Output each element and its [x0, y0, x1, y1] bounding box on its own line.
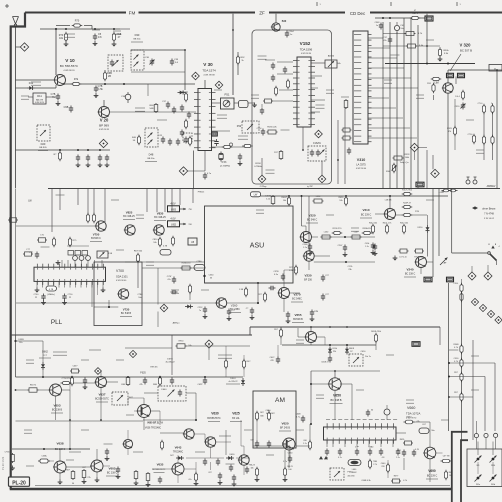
dark box V30 right [212, 132, 218, 136]
resistor R6L23 [249, 465, 259, 483]
capacitor Cb1 [83, 378, 88, 390]
capacitor C23A [269, 286, 276, 290]
junction D9FB [14, 339, 24, 344]
svg-text:4.7k: 4.7k [454, 361, 458, 363]
label V690 [426, 469, 438, 479]
transistor V6c [122, 439, 132, 448]
resistor R23k [289, 265, 297, 276]
svg-text:10k: 10k [339, 200, 342, 202]
crystal 4MHz [46, 286, 57, 296]
wire preamp mid [28, 96, 56, 98]
wire zf verticals [338, 108, 345, 184]
pot F660 [330, 468, 355, 480]
label D67B [165, 359, 175, 364]
label V660 [406, 406, 420, 420]
svg-text:CD Dec: CD Dec [350, 11, 366, 16]
label V637 [95, 393, 109, 403]
IC V310 connector [353, 31, 372, 144]
wire x226 v [226, 430, 231, 455]
resistor R623 [255, 411, 263, 422]
svg-text:L2B 6B: L2B 6B [385, 200, 392, 202]
box U8x [188, 238, 197, 245]
transistor V620 jfet [282, 438, 295, 450]
diamond below V30 [179, 167, 187, 175]
dashed varicap D30 [131, 50, 144, 70]
ground R70b [64, 42, 69, 47]
svg-text:F635: F635 [140, 372, 146, 375]
svg-text:C66B 4.3k: C66B 4.3k [361, 480, 370, 482]
label V270 [291, 293, 303, 303]
resistor R230 [332, 228, 343, 235]
capacitor C660b [253, 446, 293, 463]
transistor V320 [442, 83, 453, 93]
svg-text:3 W 14 02: 3 W 14 02 [484, 218, 495, 220]
rail y420 [16, 420, 144, 422]
capacitor C24x [171, 290, 178, 294]
svg-text:TDA 1072A: TDA 1072A [406, 412, 420, 416]
resistor R26A [181, 262, 192, 271]
svg-text:BC 558-557C: BC 558-557C [60, 64, 79, 68]
oval bottom1 [194, 472, 199, 486]
wire v270 [284, 270, 300, 312]
resistor R0L4 [383, 223, 392, 235]
wire x433 [432, 189, 434, 278]
svg-text:R26A 150: R26A 150 [182, 262, 192, 265]
svg-text:A6550: A6550 [328, 55, 335, 58]
switch S1 [488, 244, 501, 261]
label V230 [304, 274, 312, 282]
svg-text:V636 TRC548C: V636 TRC548C [145, 428, 162, 430]
dark box LB1 [416, 182, 424, 187]
svg-text:4 W5 98 35: 4 W5 98 35 [99, 129, 110, 131]
capacitor C37r [383, 37, 392, 44]
outer right frame [452, 432, 468, 502]
svg-text:PL 20 1723: PL 20 1723 [1, 456, 5, 470]
capacitor C252 [198, 307, 208, 320]
label V630 [207, 412, 221, 422]
svg-text:V643: V643 [175, 446, 182, 450]
V660 pin labels [326, 419, 397, 421]
side margin text [1, 456, 5, 470]
ZF block outline [252, 30, 332, 184]
IC V152 TDA1596 [293, 57, 315, 127]
inner right frame [461, 440, 468, 502]
resistor R6Pk [400, 439, 413, 445]
connector circle 2 [484, 433, 488, 449]
svg-text:F162%: F162% [313, 142, 321, 145]
wire v660 below [327, 440, 393, 447]
label V210 [360, 208, 372, 218]
svg-text:C658 47: C658 47 [321, 362, 329, 364]
svg-text:V655: V655 [294, 313, 301, 317]
capacitor C209 [373, 244, 378, 257]
label L2B [385, 200, 392, 202]
resistor R6L25 [283, 466, 293, 482]
capacitor C153 [98, 155, 103, 168]
rail y63 [385, 63, 475, 65]
capacitor C267 [227, 309, 236, 322]
svg-text:C9B: C9B [64, 106, 69, 109]
separator lower-right [250, 327, 440, 335]
svg-text:V625: V625 [232, 412, 240, 416]
wire lower misc [403, 458, 405, 470]
svg-text:4.7B: 4.7B [49, 289, 54, 291]
svg-text:V310: V310 [357, 158, 365, 162]
capacitor C154a [105, 155, 110, 168]
label V653 [51, 404, 63, 414]
boxes above V700 [67, 246, 89, 255]
capacitor C661 [325, 449, 329, 460]
svg-text:R53A 150: R53A 150 [363, 227, 373, 230]
svg-text:1.5k: 1.5k [98, 88, 103, 91]
wire V30 top [204, 80, 206, 89]
svg-text:C7B0: C7B0 [137, 294, 143, 296]
label V320 [460, 43, 473, 53]
texture lowmid [266, 340, 394, 455]
svg-text:FM: FM [129, 11, 136, 16]
label LW2 [28, 200, 32, 203]
transistor V220 [300, 232, 312, 243]
resistor R25x [188, 284, 191, 300]
oval C96u [419, 424, 435, 434]
wire v700 bottom stubs [37, 281, 103, 287]
transistor V210 [384, 209, 396, 220]
svg-text:TDA 1574: TDA 1574 [202, 69, 216, 73]
svg-text:1.2n: 1.2n [365, 246, 369, 248]
resistor R328 [393, 154, 411, 160]
label FM [129, 11, 136, 16]
wire V320 wires [434, 70, 457, 189]
svg-text:V637: V637 [98, 393, 105, 397]
svg-text:172: 172 [397, 453, 400, 455]
wire y360 partial [186, 346, 250, 360]
arrow AM AF [440, 258, 448, 266]
dark cap C663 [319, 456, 328, 459]
svg-text:R158: R158 [255, 163, 261, 165]
svg-text:R6L23: R6L23 [249, 465, 255, 467]
diamond chain 2 [479, 304, 486, 311]
svg-text:C6B: C6B [121, 384, 126, 386]
resistor 3.3M [431, 77, 442, 84]
resistor R5B [112, 32, 122, 47]
resistor R52 [236, 52, 245, 75]
pot board box [467, 449, 502, 487]
fbead 47B [160, 246, 171, 256]
svg-text:R6L25: R6L25 [287, 466, 293, 468]
capacitor C604 [270, 345, 281, 364]
wire osc rail [131, 50, 185, 90]
svg-text:BC 328-25: BC 328-25 [123, 215, 135, 218]
P51 tuning block [221, 93, 249, 110]
svg-text:47n: 47n [98, 36, 103, 39]
label V310 [356, 158, 367, 170]
diamond ZF3 [318, 175, 326, 183]
oval G662 [348, 460, 361, 475]
capacitor C53 [238, 154, 243, 167]
svg-text:7 N 4748: 7 N 4748 [484, 213, 494, 216]
capacitor C38b [121, 92, 131, 103]
transistor V638 [53, 461, 66, 473]
svg-text:BC 548C: BC 548C [292, 298, 302, 301]
transistor V230 [303, 251, 314, 261]
svg-text:V690: V690 [428, 469, 436, 473]
resistor R624 [267, 411, 274, 422]
node rail y29 [40, 28, 120, 30]
ground v605b [95, 472, 100, 483]
capacitor C665 [368, 446, 374, 456]
svg-text:4.7k: 4.7k [266, 413, 270, 415]
resistor R160 [274, 150, 283, 160]
label PLL [51, 319, 63, 326]
diode D631 [170, 455, 184, 460]
svg-text:R6?7: R6?7 [394, 476, 399, 478]
svg-text:(4MHz): (4MHz) [47, 294, 54, 296]
transistor V270 [278, 288, 290, 299]
wire y458 [186, 457, 250, 459]
crystal osc circle [384, 405, 390, 420]
svg-text:R0L7 10k: R0L7 10k [400, 223, 408, 225]
resistor R6B [368, 459, 377, 470]
diode D26 [185, 305, 193, 309]
transistor V600 [137, 405, 151, 418]
antenna feed wire [15, 27, 17, 189]
wire x439 [438, 189, 440, 257]
label ZF [259, 11, 265, 16]
junction dots misc [15, 28, 498, 421]
left border [11, 13, 25, 490]
svg-text:V600 BF 2L7 A: V600 BF 2L7 A [147, 422, 163, 425]
svg-text:tg 29P: tg 29P [307, 185, 313, 188]
resistor C6040 [82, 467, 90, 479]
svg-text:4 W3 98 30: 4 W3 98 30 [301, 53, 312, 55]
capacitor C09k [365, 243, 376, 256]
wire v638 row [12, 448, 90, 450]
resistor R0L2 [369, 223, 377, 235]
pot A6550 [311, 55, 342, 69]
svg-text:2.2k: 2.2k [289, 270, 293, 272]
svg-text:D12: D12 [29, 82, 34, 85]
svg-text:R24P 47: R24P 47 [403, 203, 412, 205]
cap extra b4 [232, 475, 237, 487]
svg-text:V220: V220 [308, 214, 315, 218]
transistor V750 [95, 221, 106, 231]
svg-text:1.2n: 1.2n [303, 247, 307, 249]
capacitor Cb2 [139, 378, 147, 387]
wire asu bottom ext [205, 282, 260, 284]
resistor R67x [134, 251, 143, 289]
wire v700 top stubs [62, 260, 102, 267]
svg-text:BF 256: BF 256 [304, 279, 312, 282]
capacitor C664 [355, 447, 360, 456]
pot R32B [386, 163, 397, 174]
ASU block [205, 206, 294, 283]
wire cluster [128, 411, 244, 483]
texture busarea [384, 40, 484, 153]
label B40 [282, 20, 287, 23]
diamond mid3 [205, 340, 213, 360]
svg-text:ZF: ZF [259, 11, 265, 16]
svg-text:2.7k: 2.7k [373, 464, 377, 466]
ground P51 [252, 103, 257, 108]
svg-text:R6K8: R6K8 [349, 348, 355, 350]
transistor V655 [305, 332, 317, 343]
label PH Det [198, 191, 205, 194]
wire V10 collector [55, 29, 57, 75]
svg-text:R4071: R4071 [282, 197, 289, 199]
capacitor C44 [168, 139, 172, 146]
cap extra b2 [116, 467, 121, 480]
capacitor C7W [167, 276, 176, 284]
wire sep drops [52, 189, 193, 233]
oval R756 [52, 237, 55, 248]
label V600 [145, 422, 163, 430]
label V30 [202, 62, 216, 77]
transistor V6a [183, 429, 194, 439]
texture v30 area [214, 90, 259, 139]
capacitor C5 [93, 33, 103, 46]
dark diode v30 [178, 91, 186, 95]
tcircle 2 [473, 177, 477, 184]
capacitor C36a [172, 107, 176, 114]
wire extra y469 [196, 462, 211, 474]
svg-text:V260: V260 [231, 304, 238, 308]
label zf note [260, 185, 314, 188]
texture lower [24, 360, 134, 466]
dark box LB2 [424, 277, 432, 282]
svg-text:4.5B: 4.5B [108, 253, 113, 255]
svg-text:E95 65: E95 65 [151, 367, 159, 369]
wire x43 [16, 341, 44, 377]
svg-text:4.7u: 4.7u [338, 457, 342, 459]
wire x172 drop [125, 335, 172, 375]
ASU right pin [273, 271, 285, 281]
IC V30 TDA1574 [194, 89, 216, 151]
svg-text:P51: P51 [225, 93, 230, 97]
svg-text:4.3u: 4.3u [274, 274, 278, 276]
resistor R24P [402, 203, 413, 209]
wire row262 [125, 262, 205, 268]
svg-text:V210: V210 [362, 208, 369, 212]
svg-text:AM/Qu: AM/Qu [173, 322, 181, 325]
svg-text:27M: 27M [415, 211, 419, 213]
svg-text:R658 470k: R658 470k [371, 331, 381, 333]
svg-text:V825: V825 [126, 211, 133, 215]
label V240 [404, 268, 416, 278]
coil L701 [73, 256, 78, 261]
rail y150 [35, 149, 110, 151]
ground v700 p1 [35, 288, 40, 293]
svg-text:4 W2 98 40: 4 W2 98 40 [356, 168, 367, 170]
ground mid [393, 256, 398, 261]
resistor R301 [410, 10, 421, 20]
dashed box small [183, 133, 192, 142]
resistor R5A [414, 249, 424, 259]
svg-text:47k: 47k [448, 131, 451, 133]
filter F162 [308, 142, 326, 161]
svg-text:D48: D48 [149, 153, 154, 157]
diamond R2 [484, 265, 492, 280]
resistor R347a [482, 135, 485, 146]
V310 left parts [341, 97, 352, 155]
capacitor Cb4 [197, 378, 207, 387]
test point diamond [20, 43, 28, 51]
wire f640 [144, 393, 196, 420]
texture zf area [258, 56, 335, 173]
vertical feed x233 [232, 14, 234, 95]
diamond ZF1 [315, 130, 323, 138]
wire v152 l1 [262, 62, 293, 107]
svg-text:910k: 910k [386, 171, 390, 173]
capacitor C9B [64, 106, 74, 113]
svg-text:96u: 96u [431, 430, 434, 432]
transistor V650 [328, 378, 341, 390]
wire v620 [257, 419, 289, 468]
resistor C1xx [399, 249, 409, 259]
svg-text:V152: V152 [300, 41, 311, 46]
wire bus bundle verticals [383, 18, 418, 189]
capacitor C152 [86, 155, 91, 168]
capacitor C164 [285, 31, 295, 38]
svg-text:C09k: C09k [365, 243, 369, 245]
label V20 [99, 118, 110, 132]
wire V10 emitter out [64, 83, 195, 85]
svg-text:C?34 174: C?34 174 [62, 378, 72, 380]
dark box GB2 [458, 73, 465, 77]
svg-text:BC 548 B: BC 548 B [121, 312, 132, 315]
svg-text:V620: V620 [281, 422, 288, 426]
resistor R40 [132, 135, 141, 146]
transistor V635 [171, 463, 184, 475]
label AB [438, 191, 444, 194]
svg-text:C6?: C6? [250, 440, 253, 442]
svg-text:BC548 C: BC548 C [91, 237, 101, 240]
svg-text:1.3B: 1.3B [239, 289, 244, 291]
diode D655b [345, 347, 355, 355]
label C66B [361, 480, 370, 482]
reg out U83 [168, 202, 193, 212]
transistor V20 [98, 100, 110, 118]
texture top area [21, 30, 167, 120]
diode D662 [41, 362, 45, 370]
svg-text:R6Pk: R6Pk [400, 439, 405, 441]
svg-text:BB 30x: BB 30x [147, 158, 155, 160]
capacitor C43 [158, 135, 165, 144]
capacitor C2653 [246, 308, 255, 321]
oval Rb3 [153, 376, 162, 387]
wire P51 [212, 102, 256, 104]
diamond mid1 [410, 143, 418, 151]
diode D350 [418, 225, 430, 233]
resistor R430 [339, 196, 348, 207]
capacitor C666 [379, 449, 385, 460]
label V700 [116, 269, 128, 282]
wire V30 bottom [188, 151, 205, 189]
svg-text:45-335-22: 45-335-22 [165, 362, 175, 364]
label V650 [330, 394, 343, 404]
capacitor C64B [295, 414, 305, 423]
resistor C810 [153, 237, 162, 248]
svg-text:BC 238 B: BC 238 B [52, 409, 63, 412]
svg-text:100k: 100k [405, 157, 409, 159]
label V750 [90, 233, 102, 242]
svg-text:C2M: C2M [314, 311, 319, 313]
wire v605 [66, 449, 110, 467]
wire y341 [15, 335, 17, 377]
resistor R6S7 [404, 417, 420, 424]
wire v730 [94, 300, 118, 308]
resistor R30k [438, 47, 450, 61]
wire am-ic [296, 445, 310, 447]
